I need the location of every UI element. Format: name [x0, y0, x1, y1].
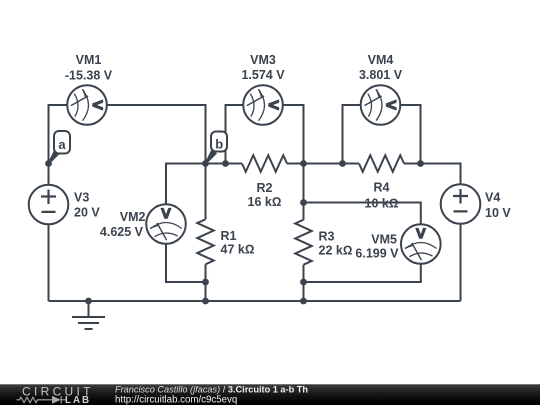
junction R4 left [339, 160, 346, 167]
voltmeter VM3 [243, 85, 283, 125]
svg-text:b: b [215, 137, 223, 152]
voltmeter VM4 [361, 85, 401, 125]
label VM5 [355, 233, 399, 261]
svg-text:10 V: 10 V [485, 206, 511, 220]
label R2 [248, 181, 282, 209]
svg-text:VM4: VM4 [368, 53, 394, 67]
svg-text:R3: R3 [319, 230, 335, 244]
junction R2 right [300, 160, 307, 167]
svg-text:20 V: 20 V [74, 206, 100, 220]
wire VM5 bottom branch [304, 263, 421, 283]
label R1 [221, 229, 255, 257]
junction R4 right [417, 160, 424, 167]
svg-text:Francisco Castillo (jfacas) /: Francisco Castillo (jfacas) / 3.Circuito… [115, 385, 308, 395]
wire VM1 right lead to node b riser [105, 105, 206, 164]
svg-text:10 kΩ: 10 kΩ [365, 197, 399, 211]
wire VM1 left lead [49, 104, 70, 106]
voltmeter VM1 [67, 85, 107, 125]
junction node a [45, 160, 52, 167]
label VM3 [241, 53, 285, 82]
label VM1 [65, 53, 113, 83]
ground [72, 301, 105, 329]
node flag b [205, 132, 227, 165]
svg-text:47 kΩ: 47 kΩ [221, 243, 255, 257]
junction VM2 bottom [202, 279, 209, 286]
node flag a [48, 131, 70, 164]
svg-text:a: a [58, 137, 66, 152]
svg-text:LAB: LAB [65, 395, 91, 405]
resistor R2 16 k [242, 155, 287, 172]
wire left rail bottom (V3 to bottom rail) [48, 224, 50, 302]
junction R3 bottom rail [300, 298, 307, 305]
svg-text:VM5: VM5 [371, 233, 397, 247]
wire bottom rail [49, 300, 461, 302]
svg-text:22 kΩ: 22 kΩ [319, 244, 353, 258]
junction ground [85, 298, 92, 305]
svg-text:6.199 V: 6.199 V [355, 247, 399, 261]
wire VM4 left lead riser [343, 105, 363, 164]
wire R3 bottom lead [303, 265, 305, 301]
wire VM3 left lead riser [226, 105, 246, 164]
resistor R4 10 k [359, 155, 404, 172]
footer bar [0, 384, 540, 405]
junction R2 left [222, 160, 229, 167]
svg-text:R2: R2 [257, 181, 273, 195]
logo schematic line with resistor and diode [17, 396, 67, 404]
voltmeter VM2 [146, 204, 186, 244]
junction R1 bottom rail [202, 298, 209, 305]
wire R1 top lead [205, 164, 207, 220]
wire R3 top (R2 dot to R3 through VM5 tap) [303, 164, 305, 220]
svg-text:http://circuitlab.com/c9c5evq: http://circuitlab.com/c9c5evq [115, 395, 237, 405]
junction node b [202, 160, 209, 167]
wire V4 bottom lead [460, 223, 462, 302]
voltmeter VM5 [401, 224, 441, 264]
wire VM4 right lead riser [399, 105, 421, 164]
svg-text:16 kΩ: 16 kΩ [248, 195, 282, 209]
wire left rail top (VM1 to V3 through node a) [48, 104, 50, 186]
svg-text:1.574 V: 1.574 V [241, 68, 285, 82]
svg-text:3.801 V: 3.801 V [359, 68, 403, 82]
label R3 [319, 230, 353, 258]
svg-text:-15.38 V: -15.38 V [65, 69, 113, 83]
wire middle row R2 to R4 [287, 163, 359, 165]
wire R1 junction drop [205, 282, 207, 301]
svg-text:VM1: VM1 [76, 53, 102, 67]
label VM4 [359, 53, 403, 82]
label VM2 [100, 210, 146, 239]
label V4 [485, 191, 511, 221]
logo diode triangle [52, 396, 61, 404]
label R4 [365, 181, 399, 211]
wire R1 bottom lead [205, 264, 207, 301]
label V3 [74, 191, 100, 220]
svg-text:4.625 V: 4.625 V [100, 225, 144, 239]
resistor R3 22 k [295, 220, 312, 265]
wire VM2 bottom branch [166, 243, 206, 283]
voltage source V3 [29, 185, 69, 225]
resistor R1 47 k [197, 219, 214, 264]
wire VM5 top branch [304, 203, 421, 227]
wire middle row R4 to V4 corner [404, 164, 461, 187]
svg-text:R4: R4 [374, 181, 390, 195]
junction VM5 tap [300, 199, 307, 206]
svg-text:VM3: VM3 [250, 53, 276, 67]
wire R3 junction drop [303, 282, 305, 301]
wire middle row node b to R2 [206, 163, 243, 165]
junction VM5 bottom [300, 279, 307, 286]
svg-text:V4: V4 [485, 191, 500, 205]
wire VM2 top branch [166, 164, 206, 206]
svg-text:VM2: VM2 [120, 210, 146, 224]
svg-text:R1: R1 [221, 229, 237, 243]
svg-text:V3: V3 [74, 191, 89, 205]
wire VM3 right lead riser [281, 105, 304, 164]
voltage source V4 [441, 184, 481, 224]
